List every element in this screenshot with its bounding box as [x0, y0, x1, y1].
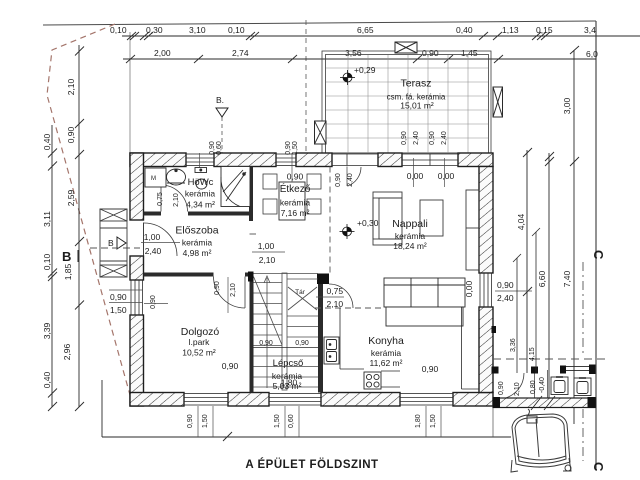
- svg-text:0,90: 0,90: [295, 340, 309, 347]
- svg-text:Lépcső: Lépcső: [273, 358, 304, 369]
- window right wall: [480, 273, 492, 307]
- top dimension line 1: [122, 32, 640, 40]
- right window dimension fraction 0,90/2,40: [495, 280, 532, 303]
- svg-text:2,00: 2,00: [154, 48, 171, 58]
- carport dashed roof edge: [493, 358, 610, 360]
- wall bottom segment 1: [130, 393, 184, 407]
- svg-text:1,45: 1,45: [461, 48, 478, 58]
- svg-text:0,10: 0,10: [228, 25, 245, 35]
- svg-text:HöWc: HöWc: [188, 177, 214, 188]
- svg-text:Tár: Tár: [295, 289, 306, 296]
- wall top segment 3: [296, 153, 332, 167]
- svg-text:1,50: 1,50: [274, 414, 281, 428]
- svg-text:0,00: 0,00: [438, 171, 455, 181]
- svg-text:7,40: 7,40: [562, 270, 572, 287]
- top dimension line 2 labels: [154, 48, 598, 59]
- svg-text:0,90: 0,90: [66, 126, 76, 143]
- svg-text:-0,40: -0,40: [539, 377, 546, 393]
- rotated terrace door dims: [335, 173, 354, 187]
- plot boundary dashed (brown): [47, 24, 130, 395]
- svg-text:3,11: 3,11: [42, 211, 52, 227]
- room label Lépcső: [272, 358, 303, 391]
- stair treads right flight: [287, 278, 318, 280]
- left inner dimension line x80: [75, 45, 84, 411]
- left inner dim labels (rotated): [62, 78, 76, 360]
- wall right segment 1: [479, 167, 493, 274]
- svg-text:2,10: 2,10: [327, 299, 344, 309]
- svg-text:3,00: 3,00: [562, 97, 572, 114]
- left window inner rotated dim 0,90: [144, 303, 168, 305]
- svg-text:2,10: 2,10: [173, 193, 180, 207]
- svg-text:0,90: 0,90: [285, 141, 292, 155]
- sofa: [384, 278, 465, 326]
- stair door pier: [317, 274, 329, 285]
- svg-text:0,40: 0,40: [42, 371, 52, 388]
- svg-text:2,10: 2,10: [514, 382, 521, 396]
- svg-text:B.: B.: [216, 95, 224, 105]
- right dimension line x574 (3,00 / 7,40): [570, 50, 579, 424]
- level marker +0,30 nappali: [340, 218, 379, 239]
- bottom window leader lines + rotated labels: [198, 406, 493, 437]
- svg-text:1,50: 1,50: [430, 414, 437, 428]
- terrace tile grid: [326, 55, 488, 153]
- beam to boundary: [535, 365, 596, 399]
- partition stairs east (P5): [318, 284, 323, 393]
- washbasin: [167, 169, 186, 185]
- wall top segment 1: [130, 153, 186, 167]
- window left wall: [131, 280, 143, 315]
- section line C: [583, 250, 606, 472]
- svg-text:l.park: l.park: [189, 337, 211, 347]
- kitchen door dim 0,75/2,10: [316, 286, 344, 309]
- partition Dolgozó east (P4): [250, 276, 254, 393]
- Dolgozó door arc: [214, 277, 246, 309]
- svg-text:Előszoba: Előszoba: [175, 225, 218, 237]
- nappali armchair: [373, 192, 402, 245]
- terrace door opening in top wall: [332, 154, 378, 166]
- svg-text:11,62 m²: 11,62 m²: [370, 358, 403, 368]
- svg-text:M: M: [151, 176, 156, 182]
- level labels 0,00 nappali doors: [413, 158, 415, 187]
- svg-text:0,90: 0,90: [209, 141, 216, 155]
- wall left segment 1: [130, 153, 144, 220]
- wall bottom segment 4 (corner): [453, 393, 493, 407]
- terrace top pillar with X: [395, 42, 417, 53]
- svg-text:0,90: 0,90: [287, 172, 304, 182]
- property boundary top line: [43, 21, 596, 25]
- svg-text:kerámia: kerámia: [185, 189, 216, 199]
- toilet: [195, 168, 207, 190]
- outdoor washstand 1: [551, 377, 568, 395]
- svg-text:B: B: [108, 238, 114, 248]
- entrance door dim 1,00/2,40: [141, 232, 180, 256]
- stair treads left flight: [254, 273, 319, 275]
- dining table: [279, 182, 305, 220]
- stair central stringer: [282, 273, 287, 390]
- svg-text:18,24 m²: 18,24 m²: [393, 241, 427, 251]
- svg-text:3,10: 3,10: [189, 25, 206, 35]
- svg-text:2,40: 2,40: [441, 131, 448, 145]
- terrace window opening in top wall: [402, 154, 458, 166]
- stove: [364, 372, 381, 389]
- svg-text:3,36: 3,36: [510, 338, 517, 352]
- svg-text:0,90: 0,90: [335, 173, 342, 187]
- svg-text:C: C: [591, 462, 606, 472]
- svg-text:0,90: 0,90: [259, 340, 273, 347]
- room label Nappali: [392, 218, 428, 251]
- top dimension line 1 labels: [110, 25, 596, 35]
- hall opening dim 1,00/2,10: [252, 241, 285, 265]
- carport post left: [492, 367, 499, 374]
- kitchen counter left: [340, 308, 400, 387]
- carport rotated labels: [498, 377, 546, 396]
- room label Étkező: [280, 182, 311, 218]
- svg-text:2,10: 2,10: [259, 255, 276, 265]
- svg-text:0,00: 0,00: [407, 171, 424, 181]
- svg-text:0,75: 0,75: [157, 192, 164, 206]
- terrace door swing arc: [348, 167, 362, 186]
- svg-text:7,16 m²: 7,16 m²: [281, 208, 310, 218]
- svg-text:kerámia: kerámia: [371, 348, 402, 358]
- section B marker left: [62, 237, 140, 264]
- svg-text:Nappali: Nappali: [392, 218, 428, 230]
- svg-text:kerámia: kerámia: [182, 238, 213, 248]
- svg-text:0,60: 0,60: [288, 414, 295, 428]
- svg-text:0,90: 0,90: [422, 364, 439, 374]
- svg-text:3,56: 3,56: [345, 48, 362, 58]
- svg-text:0,90: 0,90: [422, 48, 439, 58]
- svg-text:2,40: 2,40: [347, 173, 354, 187]
- car (front view): [511, 409, 571, 472]
- svg-text:0,30: 0,30: [146, 25, 163, 35]
- carport dim lines 3,36 / 4,15: [513, 228, 540, 373]
- stair walk line with arrow: [264, 276, 270, 388]
- svg-text:C: C: [591, 250, 606, 260]
- under-stair storage X: [288, 287, 317, 310]
- carport gate arc: [498, 373, 524, 399]
- nappali wardrobe right: [466, 190, 479, 270]
- svg-text:2,40: 2,40: [145, 246, 162, 256]
- entry porch: [100, 209, 127, 277]
- svg-text:4,15: 4,15: [529, 347, 536, 361]
- carport post right: [531, 367, 538, 374]
- svg-text:1,00: 1,00: [258, 241, 275, 251]
- svg-text:+0,29: +0,29: [354, 65, 376, 75]
- svg-text:3,4: 3,4: [584, 25, 596, 35]
- svg-text:0,90: 0,90: [222, 361, 239, 371]
- right dimension line x549 (6,60): [545, 152, 554, 398]
- svg-text:1,50: 1,50: [202, 414, 209, 428]
- washing machine: [145, 168, 166, 187]
- svg-text:1,13: 1,13: [502, 25, 519, 35]
- kitchen/nappali dashed boundary: [315, 307, 384, 309]
- wall top segment 2: [214, 153, 276, 167]
- entrance door opening left wall: [144, 223, 178, 257]
- svg-text:1,50: 1,50: [110, 305, 127, 315]
- room label Konyha: [368, 335, 404, 368]
- stairs: [254, 273, 319, 390]
- svg-text:2,40: 2,40: [413, 131, 420, 145]
- partition HöWc south (P1): [144, 212, 162, 216]
- terrace outline: [322, 51, 491, 153]
- dining chairs: [263, 174, 321, 214]
- window axis leader HöWc: [199, 153, 201, 168]
- terrace room label: [387, 78, 446, 111]
- flue block on right wall: [492, 326, 497, 333]
- terrace right pillar with X: [493, 87, 503, 117]
- svg-text:Étkező: Étkező: [280, 182, 311, 195]
- wall left segment 3: [130, 315, 144, 406]
- left outer dim labels (rotated): [42, 133, 52, 388]
- svg-text:1,85: 1,85: [63, 263, 73, 280]
- terrace level marker +0,29: [340, 65, 376, 85]
- svg-text:2,10: 2,10: [66, 78, 76, 95]
- section marker B. top: [216, 95, 228, 117]
- bottom dimension line y437: [102, 380, 511, 441]
- svg-text:1,00: 1,00: [144, 232, 161, 242]
- outdoor washstand 2: [574, 378, 591, 396]
- svg-text:Konyha: Konyha: [368, 335, 404, 347]
- left outer dimension line x53: [48, 125, 57, 411]
- svg-text:2,59: 2,59: [66, 189, 76, 206]
- svg-text:6,0: 6,0: [586, 49, 598, 59]
- dashed axis line x222 below B. marker: [221, 117, 223, 153]
- svg-text:0,40: 0,40: [456, 25, 473, 35]
- top dimension line 2: [123, 46, 596, 63]
- svg-text:4,98 m²: 4,98 m²: [183, 248, 212, 258]
- svg-text:15,01 m²: 15,01 m²: [400, 101, 434, 111]
- svg-text:0,60: 0,60: [216, 141, 223, 155]
- dashed axis line x306: [305, 20, 307, 153]
- svg-text:0,90: 0,90: [150, 295, 157, 309]
- kitchen hall door arc: [329, 284, 353, 308]
- svg-text:B: B: [62, 249, 71, 264]
- svg-text:4,04: 4,04: [516, 213, 526, 230]
- window in top wall (HöWc): [186, 154, 214, 166]
- svg-text:0,90: 0,90: [187, 414, 194, 428]
- svg-text:0,10: 0,10: [42, 253, 52, 270]
- terrace bottom-left pillar: [315, 121, 327, 144]
- stair flight width dim: [254, 340, 319, 348]
- dimension extension line x130: [129, 32, 131, 153]
- partition Előszoba south (P3): [144, 273, 214, 277]
- svg-text:0,75: 0,75: [327, 286, 344, 296]
- property boundary right line: [595, 21, 597, 470]
- hall/étkező dashed boundary: [329, 167, 331, 274]
- wall right segment 2: [479, 307, 493, 393]
- svg-text:0,90: 0,90: [498, 381, 505, 395]
- corner shower: [221, 167, 250, 207]
- window bottom wall (Konyha): [400, 394, 453, 406]
- rotated window dims above top wall: [209, 141, 299, 155]
- svg-text:0,10: 0,10: [110, 25, 127, 35]
- svg-text:10,52 m²: 10,52 m²: [182, 348, 216, 358]
- svg-text:+0,30: +0,30: [357, 218, 379, 228]
- svg-text:1,80: 1,80: [281, 378, 298, 388]
- wall left segment 2: [130, 256, 144, 280]
- svg-text:2,40: 2,40: [497, 293, 514, 303]
- svg-text:0,90: 0,90: [214, 281, 221, 295]
- svg-text:1,50: 1,50: [292, 141, 299, 155]
- svg-text:2,10: 2,10: [230, 283, 237, 297]
- kitchen sink: [324, 337, 339, 364]
- wall bottom segment 3: [321, 393, 400, 407]
- svg-text:3,39: 3,39: [42, 322, 52, 339]
- svg-text:1,80: 1,80: [415, 414, 422, 428]
- svg-text:0,40: 0,40: [42, 133, 52, 150]
- room label Előszoba: [175, 225, 218, 259]
- svg-text:0,15: 0,15: [536, 25, 553, 35]
- wall bottom segment 2: [228, 393, 269, 407]
- svg-text:0,00: 0,00: [464, 280, 474, 297]
- svg-text:0,90: 0,90: [110, 292, 127, 302]
- room label HöWc: [185, 177, 216, 210]
- room label Dolgozó: [181, 326, 220, 358]
- svg-text:kerámia: kerámia: [395, 231, 426, 241]
- left window dimension leaders: [109, 290, 143, 315]
- svg-text:6,60: 6,60: [537, 270, 547, 287]
- window in top wall (Étkező): [276, 154, 296, 166]
- window bottom wall (Lépcső): [269, 394, 321, 406]
- stair treads bottom: [254, 366, 319, 368]
- wall top segment 4: [378, 153, 402, 167]
- svg-text:0,90: 0,90: [429, 131, 436, 145]
- svg-text:4,34 m²: 4,34 m²: [186, 200, 215, 210]
- HöWc door leaf and arc: [160, 185, 162, 212]
- svg-text:0,80: 0,80: [530, 380, 537, 394]
- svg-text:A ÉPÜLET FÖLDSZINT: A ÉPÜLET FÖLDSZINT: [245, 458, 378, 471]
- kitchen counter right: [462, 307, 480, 389]
- nappali table: [420, 200, 443, 236]
- svg-text:0,90: 0,90: [497, 280, 514, 290]
- svg-text:6,65: 6,65: [357, 25, 374, 35]
- stair top-left pier: [248, 272, 254, 282]
- partition HöWc east (P2): [249, 167, 253, 222]
- svg-text:Terasz: Terasz: [401, 78, 432, 90]
- window bottom wall (Dolgozó): [184, 394, 228, 406]
- svg-text:0,90: 0,90: [401, 131, 408, 145]
- svg-text:2,74: 2,74: [232, 48, 249, 58]
- house exterior walls (hatched blocks): [130, 153, 493, 406]
- wall top segment 5 (corner): [458, 153, 493, 167]
- svg-text:kerámia: kerámia: [280, 198, 311, 208]
- right dimension line x527 (4,04): [523, 148, 532, 373]
- outdoor boundary wall hatched: [493, 398, 596, 408]
- svg-text:2,96: 2,96: [62, 343, 72, 360]
- rotated terrace window dims: [401, 131, 448, 145]
